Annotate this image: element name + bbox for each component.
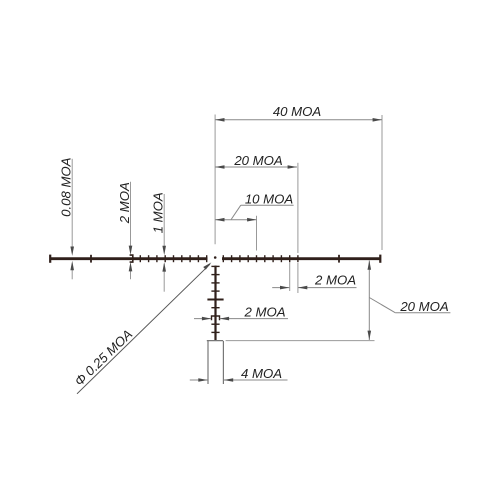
horizontal crosshair line left segment bbox=[50, 257, 208, 260]
svg-text:4 MOA: 4 MOA bbox=[241, 366, 282, 381]
svg-text:0.08 MOA: 0.08 MOA bbox=[59, 157, 74, 217]
bottom post top edge bbox=[207, 340, 223, 342]
leader for right 20 MOA text bbox=[369, 298, 395, 313]
20 MOA bracket on left line bbox=[130, 255, 133, 262]
svg-text:Φ 0.25 MOA: Φ 0.25 MOA bbox=[72, 327, 136, 389]
dimension 10 MOA bbox=[215, 219, 256, 221]
extension line 20 MOA right (x=298) bbox=[297, 163, 299, 253]
svg-text:2 MOA: 2 MOA bbox=[314, 273, 356, 288]
dimension 40 MOA bbox=[215, 119, 382, 121]
dimension 20 MOA right vertical bbox=[368, 260, 370, 340]
dimension 2 MOA upper right bbox=[272, 287, 289, 289]
wide 10 MOA tick on vertical line bbox=[207, 299, 223, 301]
svg-text:2 MOA: 2 MOA bbox=[117, 182, 132, 224]
30 MOA tick right bbox=[338, 255, 340, 263]
horizontal crosshair line right segment bbox=[222, 257, 381, 260]
vertical crosshair line below center bbox=[214, 266, 216, 341]
svg-text:20 MOA: 20 MOA bbox=[399, 299, 449, 314]
dimension 0.08 MOA (line thickness) bbox=[71, 159, 73, 253]
extension line 10 MOA right (x=256.5) bbox=[256, 216, 258, 251]
measured tick with end nubs (2 MOA) bbox=[212, 316, 220, 320]
extension line at x=289.7 below line bbox=[289, 263, 291, 292]
leader Phi 0.25 MOA to center dot bbox=[77, 264, 210, 394]
dimension 4 MOA (post width) bbox=[190, 379, 208, 381]
svg-text:20 MOA: 20 MOA bbox=[233, 153, 283, 168]
right end cap tick bbox=[379, 255, 381, 263]
fine ticks right half bbox=[223, 255, 298, 262]
svg-text:10 MOA: 10 MOA bbox=[245, 192, 294, 207]
svg-text:1 MOA: 1 MOA bbox=[151, 192, 166, 233]
left end cap tick bbox=[49, 255, 51, 263]
vertical line ticks bbox=[211, 266, 219, 332]
bottom post left edge bbox=[207, 341, 209, 384]
dimension 20 MOA top bbox=[215, 166, 297, 168]
fine ticks left half bbox=[140, 255, 206, 262]
leader for 10 MOA text bbox=[231, 205, 241, 219]
bottom post right edge bbox=[222, 341, 224, 384]
dimension 2 MOA on vertical line (tick width) bbox=[194, 318, 211, 320]
svg-text:2 MOA: 2 MOA bbox=[243, 304, 285, 319]
extension line from post top to right bbox=[226, 340, 375, 342]
30 MOA tick left bbox=[90, 255, 92, 263]
center dot bbox=[214, 256, 217, 259]
extension line from center up to 40 MOA dimension bbox=[214, 115, 216, 245]
dimension 2 MOA (left bracket height) bbox=[130, 182, 132, 252]
dimension 1 MOA (tick height) bbox=[163, 194, 165, 252]
svg-text:40 MOA: 40 MOA bbox=[273, 104, 322, 119]
extension line right end 40 MOA bbox=[381, 115, 383, 250]
